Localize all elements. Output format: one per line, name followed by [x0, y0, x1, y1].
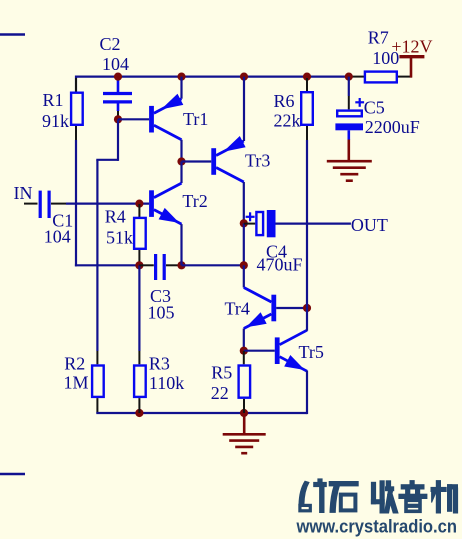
wire C3 row to C4 column [182, 264, 244, 266]
node R5/ground junction [240, 409, 248, 417]
wire C3 left pin [139, 264, 153, 266]
wire top supply rail [76, 75, 350, 77]
resistor R3 [134, 366, 146, 397]
svg-text:Tr3: Tr3 [245, 151, 270, 171]
wire R6 column down to Tr4 base [306, 140, 308, 308]
wire C5 top [348, 77, 350, 96]
wire Tr4 emitter vertical [243, 329, 245, 351]
wire R3 column [138, 265, 140, 351]
wire C1 right pin [51, 203, 66, 205]
node R4 top junction [135, 200, 143, 208]
wire C3 row from left corner [75, 264, 139, 266]
svg-text:51k: 51k [106, 228, 133, 248]
wire R1 bottom pin [75, 126, 77, 140]
transistor Tr1 [149, 106, 154, 133]
node R4 bottom junction [135, 261, 143, 269]
resistor R5 [239, 366, 251, 398]
svg-text:470uF: 470uF [257, 255, 303, 275]
transistor Tr5 [275, 337, 280, 364]
transistor Tr2 [149, 190, 154, 217]
wire IN line to Tr2 base [66, 203, 149, 205]
wire R6 top pin [306, 78, 308, 91]
resistor R1 [71, 93, 83, 125]
wire node to Tr3 base [182, 160, 212, 162]
svg-text:R4: R4 [105, 206, 126, 226]
node Tr2 emitter junction [177, 261, 185, 269]
svg-text:104: 104 [44, 227, 71, 247]
capacitor C2 [103, 92, 132, 95]
resistor R6 [301, 92, 313, 125]
wire bottom rail [96, 412, 307, 414]
svg-text:Tr5: Tr5 [299, 342, 324, 362]
ground symbol bottom [243, 413, 246, 434]
node rail junction R6 [303, 73, 311, 81]
wire R3 bottom pin [138, 398, 140, 413]
svg-text:OUT: OUT [351, 215, 388, 235]
wire rail to R7 [350, 76, 364, 78]
wire R2 bottom pin [96, 398, 98, 413]
resistor R4 [134, 218, 146, 249]
wire R5 bottom pin [243, 399, 245, 413]
wire Tr1 base [118, 118, 149, 120]
transistor Tr4 [271, 295, 276, 322]
wire C2 top pin [117, 78, 120, 93]
svg-text:Tr1: Tr1 [183, 109, 208, 129]
svg-text:22k: 22k [274, 111, 301, 131]
power +12V stem [410, 57, 413, 78]
wire left column R1 branch [75, 76, 77, 93]
wire Tr1 collector vertical [180, 140, 182, 162]
svg-text:R7: R7 [368, 28, 389, 48]
wire bias jog left [96, 159, 118, 161]
capacitor C4 electrolytic [256, 212, 263, 235]
wire column down to Tr4 collector [243, 265, 245, 287]
svg-text:C5: C5 [364, 98, 385, 118]
node rail junction C2 [114, 73, 122, 81]
wire Tr5 collector vertical [306, 308, 308, 331]
wire C5 top pin [348, 96, 350, 109]
node C2-bottom / Tr1 base junction [114, 115, 122, 123]
wire R4 top pin [138, 204, 140, 217]
node C4-column C3-row junction [240, 261, 248, 269]
svg-text:Tr2: Tr2 [182, 191, 207, 211]
svg-text:R6: R6 [274, 91, 295, 111]
wire R2 column [96, 160, 98, 351]
capacitor C3 [154, 254, 157, 280]
svg-text:R3: R3 [149, 354, 170, 374]
svg-text:1M: 1M [64, 373, 89, 393]
node Tr4 base junction [303, 304, 311, 312]
node rail junction Tr1 emitter [177, 73, 185, 81]
wire Tr4 base to R6 column [276, 307, 307, 309]
wire Tr5 base [244, 350, 275, 352]
capacitor C1 [39, 191, 42, 218]
svg-text:C2: C2 [100, 34, 121, 54]
wire R4 bottom pin [138, 250, 140, 265]
svg-text:R2: R2 [64, 354, 85, 374]
capacitor C5 electrolytic [337, 111, 362, 117]
wire Tr1 emitter vertical [180, 77, 182, 99]
wire R2 top pin [96, 351, 98, 364]
wire Tr3 collector vertical [243, 182, 245, 223]
svg-text:2200uF: 2200uF [365, 117, 420, 137]
svg-text:105: 105 [148, 303, 175, 323]
node rail junction C5 [345, 73, 353, 81]
svg-text:Tr4: Tr4 [225, 299, 250, 319]
svg-text:110k: 110k [149, 373, 184, 393]
wire C3 right pin [166, 264, 182, 266]
wire R1 top pin [75, 78, 77, 92]
wire Tr5 emitter vertical [306, 371, 308, 415]
stray wire stub bottom-left [0, 473, 25, 476]
svg-text:R1: R1 [43, 90, 64, 110]
wire R6 bottom pin [306, 126, 308, 140]
ground symbol C5 [347, 140, 350, 162]
stray wire stub top-left [0, 33, 25, 36]
svg-text:104: 104 [102, 54, 129, 74]
resistor R2 [92, 366, 104, 397]
power +12V bar [399, 55, 424, 58]
node Tr1/Tr2 collector - Tr3 base junction [177, 157, 185, 165]
wire bias jog down [117, 119, 119, 161]
svg-text:+12V: +12V [391, 37, 432, 57]
svg-text:91k: 91k [42, 111, 69, 131]
node R3 bottom junction [135, 409, 143, 417]
svg-text:R5: R5 [211, 362, 232, 382]
wire C4 to OUT [276, 223, 351, 225]
wire C2 bottom pin [117, 103, 120, 111]
transistor Tr3 [211, 148, 216, 175]
node rail junction Tr3 emitter [240, 73, 248, 81]
wire R5 top pin [243, 351, 245, 364]
wire Tr2 collector vertical [180, 162, 182, 184]
svg-text:22: 22 [211, 383, 229, 403]
wire Tr2 emitter vertical [180, 224, 182, 265]
node C4 junction [240, 219, 248, 227]
wire R3 top pin [138, 351, 140, 364]
svg-text:IN: IN [14, 183, 33, 203]
svg-text:www.crystalradio.cn: www.crystalradio.cn [296, 517, 457, 537]
resistor R7 [365, 72, 397, 83]
wire C5 bottom stem [347, 130, 350, 140]
wire R7 right pin to power stem [398, 76, 412, 78]
wire C4 column to C3 row [243, 223, 245, 265]
wire IN lead [24, 203, 38, 205]
node Tr5 base junction [240, 347, 248, 355]
wire Tr3 emitter vertical to rail [243, 77, 245, 141]
wire C4 left pin [244, 223, 255, 225]
wire left column down to C3 row [75, 140, 77, 266]
logo crystalradio [299, 479, 458, 513]
